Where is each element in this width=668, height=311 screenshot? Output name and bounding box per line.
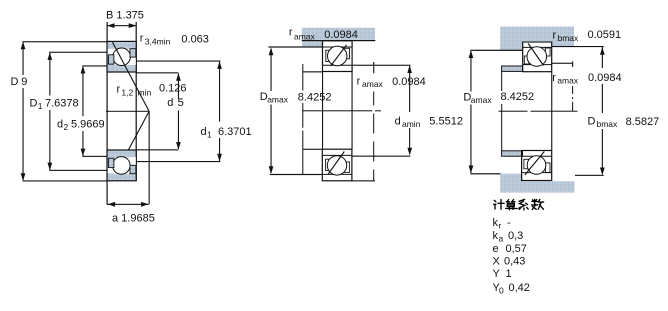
svg-text:0: 0 [499, 286, 504, 296]
top bearing box middle [323, 41, 353, 72]
dimension line B [107, 23, 136, 28]
svg-text:r: r [552, 72, 556, 84]
damin extension bottom [352, 148, 412, 157]
bearing bore edges middle [322, 72, 323, 150]
bearing bore edge right [551, 72, 552, 151]
dimension line d vertical [176, 73, 181, 150]
bottom bearing box right [522, 151, 552, 181]
svg-text:8.4252: 8.4252 [298, 92, 332, 104]
svg-text:0.063: 0.063 [181, 34, 209, 46]
top bearing section box [107, 41, 136, 72]
housing shoulder line bottom [470, 173, 500, 174]
svg-text:1: 1 [506, 268, 512, 280]
dimension line D vertical [21, 42, 26, 181]
bottom box top edge extension left [303, 149, 323, 150]
extension line d1 top [136, 61, 220, 62]
bore line bottom [136, 149, 178, 150]
axis line right [499, 111, 578, 112]
svg-text:5.5512: 5.5512 [429, 116, 463, 128]
dimension line a [107, 202, 149, 207]
housing foot bottom [502, 151, 523, 156]
svg-text:a 1.9685: a 1.9685 [112, 213, 155, 225]
label d2 5.9669 [57, 118, 106, 133]
svg-text:a: a [499, 234, 504, 244]
svg-text:7.6378: 7.6378 [45, 98, 79, 110]
contact angle line lower [112, 111, 149, 181]
svg-text:0,3: 0,3 [508, 230, 523, 242]
svg-text:e: e [493, 243, 499, 255]
svg-text:1: 1 [38, 101, 43, 111]
abutment line top [302, 40, 376, 41]
svg-text:amax: amax [294, 32, 316, 42]
svg-text:0,42: 0,42 [509, 282, 530, 294]
svg-text:min: min [138, 87, 152, 97]
svg-text:d: d [201, 126, 207, 138]
svg-text:r: r [140, 33, 144, 45]
svg-text:2: 2 [64, 122, 69, 132]
svg-text:amin: amin [402, 119, 421, 129]
heading calculation-factors (hand-drawn CJK) [494, 199, 544, 210]
box bottom extension right [352, 180, 375, 181]
extension line D bottom [23, 180, 108, 181]
housing recess line top [552, 46, 604, 47]
shaft shoulder bar [302, 28, 375, 41]
housing foot top [502, 66, 523, 71]
value 8.4252 right [498, 91, 534, 104]
svg-text:d: d [167, 97, 173, 109]
housing bar bottom [522, 181, 575, 192]
svg-text:1,2: 1,2 [121, 87, 133, 97]
svg-text:B 1.375: B 1.375 [106, 10, 144, 22]
svg-text:amax: amax [471, 95, 493, 105]
svg-text:9: 9 [21, 76, 27, 88]
svg-text:bmax: bmax [558, 33, 580, 43]
label D1 7.6378 [29, 97, 81, 112]
svg-text:8.5827: 8.5827 [626, 116, 660, 128]
housing shoulder line top [470, 50, 522, 51]
value 8.4252 middle [296, 91, 332, 104]
svg-text:0,43: 0,43 [504, 256, 525, 268]
svg-text:amax: amax [557, 76, 579, 86]
dimension line ramax middle vertical [373, 62, 374, 181]
shaft shoulder lip [302, 40, 323, 46]
svg-text:0,57: 0,57 [506, 243, 527, 255]
svg-text:r: r [357, 76, 361, 88]
dimension line damin vertical [409, 66, 410, 148]
housing step top [500, 41, 522, 50]
bore line top [136, 72, 178, 73]
svg-text:1: 1 [207, 130, 212, 140]
dimension line Dbmax vertical [600, 47, 605, 175]
housing recess strip top [552, 41, 574, 46]
axis line left diagram [106, 111, 149, 112]
svg-text:3,4min: 3,4min [145, 36, 171, 46]
housing bar top [500, 27, 574, 42]
svg-text:r: r [289, 27, 293, 39]
extension line d2 bottom [82, 156, 107, 157]
shoulder face line bottom [270, 174, 322, 175]
dimension line D1 vertical [48, 52, 53, 170]
top bearing box right [523, 42, 552, 72]
axis line middle [302, 110, 381, 111]
svg-text:X: X [493, 256, 501, 268]
extension line D1 top [49, 52, 107, 53]
dimension line d1 vertical [217, 61, 222, 161]
svg-text:r: r [117, 84, 121, 96]
svg-text:-: - [507, 217, 511, 229]
svg-text:r: r [499, 221, 502, 231]
svg-text:0.0591: 0.0591 [588, 29, 622, 41]
contact angle line upper [112, 42, 149, 112]
svg-text:5: 5 [178, 97, 184, 109]
svg-text:d: d [57, 119, 63, 131]
svg-text:bmax: bmax [597, 119, 619, 129]
svg-text:0.0984: 0.0984 [392, 76, 426, 88]
damin extension top [352, 65, 412, 73]
shoulder face line [268, 46, 322, 47]
bottom bearing box middle [322, 149, 352, 181]
a extension vertical [149, 111, 150, 204]
svg-text:5.9669: 5.9669 [71, 119, 105, 131]
bearing right face line [136, 22, 137, 181]
svg-text:amax: amax [267, 95, 289, 105]
dimension line d2 vertical [81, 66, 86, 157]
dimension line Damax right [469, 50, 474, 173]
bottom bearing section box [107, 150, 136, 181]
bearing left face line [107, 22, 108, 205]
ra line right diagram [552, 61, 573, 111]
svg-text:0.126: 0.126 [159, 83, 187, 95]
extension line d2 top [82, 65, 107, 66]
svg-text:8.4252: 8.4252 [501, 91, 535, 103]
svg-text:0.0984: 0.0984 [588, 72, 622, 84]
svg-text:D: D [11, 76, 19, 88]
svg-text:0.0984: 0.0984 [324, 29, 358, 41]
extension line d1 bottom [136, 161, 220, 162]
svg-text:D: D [588, 116, 596, 128]
svg-text:D: D [30, 98, 38, 110]
svg-text:Y: Y [493, 268, 501, 280]
box bottom line extension left top [303, 71, 323, 72]
dimension line Damax middle [269, 48, 274, 174]
extension line D top [23, 41, 108, 42]
housing bore wall line [501, 72, 502, 152]
housing step bottom [500, 174, 522, 193]
shaft end line vertical [302, 64, 303, 174]
svg-text:r: r [553, 30, 557, 42]
svg-text:d: d [395, 116, 401, 128]
housing recess line bottom [575, 175, 604, 176]
svg-text:6.3701: 6.3701 [218, 126, 252, 138]
svg-text:amax: amax [362, 79, 384, 89]
extension line D1 bottom [49, 170, 107, 171]
